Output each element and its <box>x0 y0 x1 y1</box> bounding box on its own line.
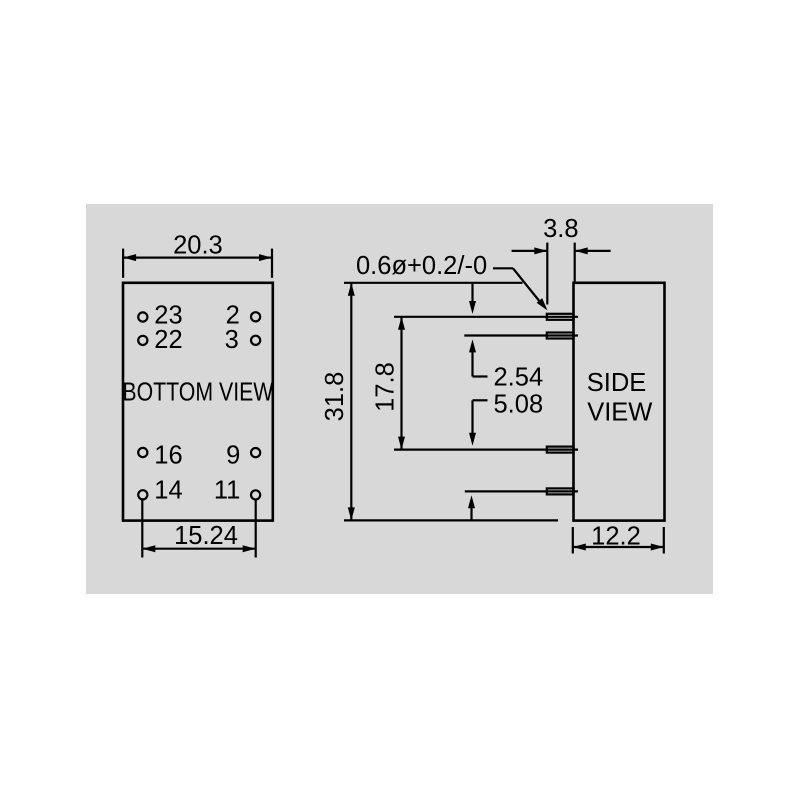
dimension 15.24 extension line left <box>141 500 143 558</box>
svg-text:9: 9 <box>226 442 240 470</box>
dimension 15.24 arrow right <box>243 545 256 552</box>
dimension 20.3 extension line right <box>271 249 273 278</box>
svg-text:5.08: 5.08 <box>494 390 544 418</box>
dimension 31.8 top extension line <box>344 282 523 284</box>
svg-text:16: 16 <box>154 442 182 470</box>
dimension 31.8 arrow bottom <box>348 507 355 520</box>
svg-text:11: 11 <box>214 476 240 504</box>
dimension 31.8 line <box>350 283 352 520</box>
pin hole 14 <box>138 490 147 499</box>
pin hole 11 <box>251 490 260 499</box>
dimension 3.8 left line <box>512 250 548 252</box>
dimension 12.2 arrow left <box>573 544 586 551</box>
pin 2 body <box>547 333 574 339</box>
pin hole 3 <box>251 336 260 345</box>
svg-text:0.6ø+0.2/-0: 0.6ø+0.2/-0 <box>356 252 487 280</box>
svg-text:20.3: 20.3 <box>173 231 223 259</box>
dimension 5.08 lower shaft <box>470 507 472 520</box>
dimension 20.3 arrow left <box>123 254 136 261</box>
dimension 2.54 leg <box>473 375 488 377</box>
pin 1 body <box>547 314 574 320</box>
dimension 15.24 line <box>142 548 255 550</box>
pin 4 center line <box>465 490 578 492</box>
dimension 12.2 line <box>573 546 664 548</box>
pin hole 16 <box>138 448 147 457</box>
gray drawing background <box>86 204 713 594</box>
dimension 15.24 extension line right <box>255 500 257 558</box>
dimension 17.8 arrow top <box>398 317 405 330</box>
dimension 2.54 lower shaft <box>471 351 473 377</box>
dimension 3.8 right arrow <box>575 247 588 254</box>
dimension 17.8 arrow bottom <box>398 437 405 450</box>
svg-text:17.8: 17.8 <box>372 362 400 412</box>
svg-text:15.24: 15.24 <box>174 522 238 550</box>
svg-text:BOTTOM VIEW: BOTTOM VIEW <box>122 378 274 406</box>
svg-text:12.2: 12.2 <box>591 522 641 550</box>
svg-text:SIDE: SIDE <box>587 369 647 397</box>
svg-text:VIEW: VIEW <box>587 399 652 427</box>
pin 3 body <box>547 447 574 453</box>
dimension 2.54 lower arrow <box>469 339 476 352</box>
dimension 20.3 arrow right <box>259 254 272 261</box>
dimension 3.8 extension line left <box>546 243 548 305</box>
dimension 3.8 right line <box>575 250 611 252</box>
svg-text:22: 22 <box>154 326 182 354</box>
svg-text:2.54: 2.54 <box>494 363 544 391</box>
svg-text:3: 3 <box>225 326 239 354</box>
dimension 17.8 line <box>400 317 402 450</box>
pin 2 center line <box>464 334 578 336</box>
pin hole 23 <box>138 312 147 321</box>
dimension 15.24 arrow left <box>142 545 155 552</box>
dimension 20.3 extension line left <box>122 249 124 278</box>
pin 3 center line <box>394 449 578 451</box>
pin hole 9 <box>251 448 260 457</box>
svg-text:14: 14 <box>154 476 182 504</box>
dimension 5.08 upper arrow <box>469 433 476 446</box>
dimension 2.54 upper arrow <box>469 301 476 314</box>
pin hole 22 <box>138 336 147 345</box>
dimension 2.54 upper shaft <box>471 284 473 302</box>
dimension 5.08 lower arrow <box>468 495 475 508</box>
svg-text:31.8: 31.8 <box>321 372 349 422</box>
dimension 31.8 bottom extension line <box>344 519 558 521</box>
bottom view outline <box>123 283 273 521</box>
dimension 3.8 left arrow <box>534 247 547 254</box>
side view outline <box>574 283 665 521</box>
dimension 31.8 arrow top <box>348 283 355 296</box>
dimension 12.2 arrow right <box>651 544 664 551</box>
pin hole 2 <box>251 312 260 321</box>
dimension 5.08 upper shaft <box>471 400 473 434</box>
svg-text:3.8: 3.8 <box>543 215 578 243</box>
pin 1 center line <box>394 316 578 318</box>
leader line diagonal <box>513 268 541 302</box>
dimension 20.3 line <box>123 257 272 259</box>
dimension 12.2 extension line right <box>663 527 665 554</box>
leader line horizontal <box>493 267 513 269</box>
dimension 3.8 extension line right <box>574 243 576 283</box>
dimension 5.08 leg <box>473 399 488 401</box>
pin 4 body <box>547 488 574 494</box>
leader arrowhead <box>537 298 548 310</box>
dimension 12.2 extension line left <box>572 527 574 554</box>
